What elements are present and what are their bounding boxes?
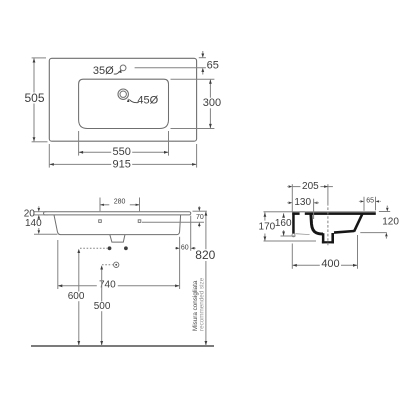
dimension 550 (basin width): [78, 131, 80, 156]
side view: drain centreline (dashed): [327, 184, 329, 203]
side view: back apron section (black): [292, 212, 295, 233]
top view: drain hole 45mm double circle: [118, 89, 128, 99]
side view: bowl back and bottom section: [311, 214, 323, 234]
dimension 600 (height of fixing dots): [78, 253, 80, 292]
svg-text:65: 65: [207, 60, 219, 72]
svg-text:45Ø: 45Ø: [137, 95, 158, 107]
top view: faucet hole 35mm: [120, 65, 126, 71]
svg-text:140: 140: [25, 218, 42, 229]
svg-text:400: 400: [321, 258, 339, 270]
front view: dashed leader to fixing dots: [80, 247, 107, 249]
svg-text:65: 65: [366, 198, 374, 205]
side view: rim top surface line: [264, 211, 376, 213]
dimension 70 (right, rim to hole): [193, 210, 207, 212]
dimension 740 (body width): [57, 240, 59, 289]
svg-text:170: 170: [259, 221, 276, 232]
dimension 130: [313, 199, 315, 219]
dimension 170 (side left): [264, 240, 317, 242]
front view: rim capsule: [44, 212, 191, 215]
front view: left fixing hole square: [99, 220, 102, 223]
faucet hole gap in rim bar: [300, 212, 305, 215]
side view: back apron foot: [292, 234, 295, 237]
dashed leader to siphon: [102, 264, 113, 266]
svg-text:60: 60: [181, 244, 189, 251]
dimension 820 (rim height): [205, 212, 207, 249]
side view: rim section bar (black): [292, 212, 376, 215]
front view: drain trapezoid: [110, 235, 125, 242]
side view: bowl bottom right of drain: [334, 231, 354, 233]
front view: siphon circle: [114, 262, 119, 267]
svg-text:820: 820: [195, 248, 215, 262]
front view: basin body outline: [54, 215, 181, 235]
floor line: [31, 345, 214, 347]
side view: hidden bottom edge line: [295, 233, 309, 236]
fixing dot left: [108, 246, 112, 250]
svg-text:recommended size: recommended size: [198, 277, 205, 331]
dimension 300 (right): [171, 78, 215, 80]
svg-text:300: 300: [203, 97, 221, 109]
svg-text:205: 205: [302, 181, 319, 192]
dimension 160: [281, 235, 296, 237]
svg-text:70: 70: [196, 214, 204, 221]
dimension 120 (side right): [379, 211, 390, 213]
dimension 280 (fixing holes distance): [99, 198, 101, 212]
dimension 140 (body height, left): [34, 233, 57, 235]
svg-text:550: 550: [113, 146, 131, 158]
svg-text:130: 130: [294, 197, 311, 208]
svg-text:120: 120: [382, 217, 399, 228]
leader arrow to drain hole: [129, 100, 138, 103]
dimension 60 (rim overhang, right): [179, 237, 181, 289]
svg-text:160: 160: [275, 218, 292, 229]
svg-text:35Ø: 35Ø: [93, 65, 114, 77]
side view: drain box section: [322, 233, 325, 243]
leader arrow to faucet hole: [114, 71, 120, 74]
dimension 505 (left): [32, 57, 46, 59]
dimension 20 (rim thickness, left): [34, 211, 47, 213]
top view: inner basin rounded rectangle: [79, 79, 169, 128]
dimension 65 (top right): [199, 57, 206, 59]
top view: washbasin outer deck rectangle: [49, 58, 196, 141]
dimension 65 (side, front overhang): [363, 197, 365, 211]
dimension 500 (siphon height): [101, 269, 103, 302]
side view: bowl front slope: [354, 214, 362, 232]
svg-text:280: 280: [114, 198, 126, 205]
front view: right fixing hole square: [138, 220, 141, 223]
svg-text:500: 500: [94, 301, 111, 312]
svg-text:600: 600: [68, 291, 85, 302]
dimension 915 (overall width): [48, 144, 50, 168]
fixing dot right: [124, 246, 128, 250]
dimension 205 (side top): [291, 184, 293, 211]
svg-text:505: 505: [24, 91, 44, 105]
dimension 400 (side bottom): [291, 244, 293, 269]
svg-text:915: 915: [113, 158, 131, 170]
